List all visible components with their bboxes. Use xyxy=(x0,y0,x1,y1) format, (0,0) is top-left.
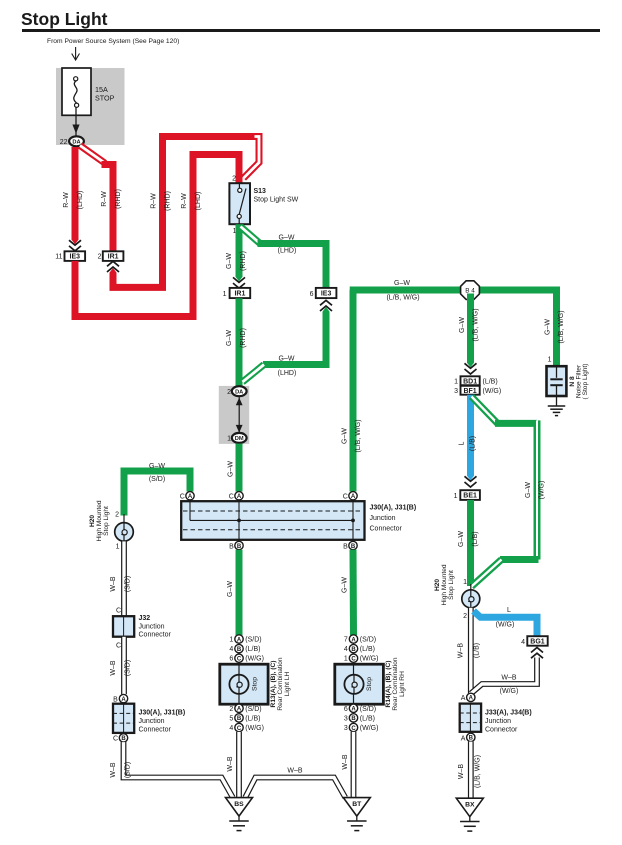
svg-text:A: A xyxy=(188,494,193,500)
junction connector J30(A), J31(B) (left) xyxy=(113,704,134,733)
wire R-W (RHD) outlined corner into S13 pin 2 xyxy=(244,137,260,179)
wire G-W (RHD) from S13 pin 1 xyxy=(236,224,243,274)
svg-text:G–W: G–W xyxy=(342,577,349,593)
svg-text:J30(A), J31(B): J30(A), J31(B) xyxy=(139,710,186,717)
svg-text:A: A xyxy=(237,707,242,713)
lamp symbol R13 stop xyxy=(229,675,248,694)
connector BG1 xyxy=(527,636,547,646)
connector arrow below IR1 xyxy=(110,268,117,276)
ground bars BT xyxy=(347,820,367,822)
wire G-W (W/G) bypass diagonal from BF1 xyxy=(472,397,498,424)
connector BE1 xyxy=(460,490,480,500)
wire G-W (L/B,W/G) from B4 down to BD1/BF1 xyxy=(467,294,474,361)
svg-text:Junction: Junction xyxy=(485,718,511,725)
svg-text:C: C xyxy=(343,494,348,501)
pin A of R13 bottom xyxy=(235,704,243,712)
svg-text:(W/G): (W/G) xyxy=(496,622,515,629)
svg-text:Rear Combination: Rear Combination xyxy=(392,657,399,710)
svg-text:W–B: W–B xyxy=(458,643,465,659)
ground of N8 xyxy=(556,396,558,406)
svg-text:(S/D): (S/D) xyxy=(125,576,132,592)
pin A of R13 top xyxy=(235,635,243,643)
wire W-B link BS to BT xyxy=(245,778,345,798)
svg-text:(L/B): (L/B) xyxy=(245,646,260,653)
svg-text:Connector: Connector xyxy=(139,632,172,639)
svg-text:1: 1 xyxy=(223,291,227,298)
svg-text:IR1: IR1 xyxy=(108,254,119,261)
svg-text:(W/G): (W/G) xyxy=(245,656,264,663)
pin B (bottom mid) xyxy=(235,541,243,549)
svg-text:2: 2 xyxy=(232,176,236,183)
svg-text:G–W: G–W xyxy=(226,253,233,269)
svg-text:2: 2 xyxy=(227,389,231,396)
connector B4 (octagon) xyxy=(461,281,480,300)
connector IR1 (red) xyxy=(103,251,124,261)
wire W-B from H20 pin 2 xyxy=(468,608,474,693)
junction connector J30(A), J31(B) (main) xyxy=(181,501,364,540)
svg-text:W–B: W–B xyxy=(110,762,117,778)
pin chain line R13 bottom xyxy=(238,704,240,732)
wire G-W (S/D) branch to left H20 xyxy=(124,471,190,516)
connector DM (mid) xyxy=(232,433,247,443)
wire G-W (LHD) diagonal from S13 pin 1 xyxy=(241,227,261,244)
pin C of R13 bottom xyxy=(235,723,243,731)
svg-text:(RHD): (RHD) xyxy=(240,328,247,348)
ground point BX xyxy=(456,798,483,817)
connector arrow into BE1 xyxy=(467,472,474,480)
svg-text:B: B xyxy=(113,696,118,703)
svg-text:B: B xyxy=(237,647,242,653)
connector IE3 (green) xyxy=(316,288,337,298)
wire R-W (LHD) loop from IE3 to S13 pin 2 xyxy=(75,155,239,317)
pin chain line R13 top xyxy=(238,635,240,664)
svg-text:A: A xyxy=(237,494,242,500)
wire L (L/B) from BF1 to BE1 xyxy=(467,395,474,474)
lamp R14 Rear Combination Light RH xyxy=(335,664,384,704)
fuse 15A STOP xyxy=(62,68,91,115)
pin C of R13 top xyxy=(235,654,243,662)
pin A of R14 top xyxy=(349,635,357,643)
lamp H20 High Mounted Stop Light (S/D) xyxy=(123,514,125,523)
pin B of J30/J31 left xyxy=(119,734,127,742)
pin B of R14 bottom xyxy=(349,714,357,722)
svg-text:B: B xyxy=(351,647,356,653)
svg-text:(L/B): (L/B) xyxy=(474,643,481,658)
lamp H20 High Mounted Stop Light (right) xyxy=(470,584,472,591)
wire G-W (W/G) bypass vertical xyxy=(534,420,541,559)
svg-text:BG1: BG1 xyxy=(530,639,545,646)
svg-text:(W/G): (W/G) xyxy=(245,725,264,732)
pin B of J33/J34 xyxy=(467,733,475,741)
svg-text:Stop Light SW: Stop Light SW xyxy=(254,197,299,204)
svg-text:3: 3 xyxy=(454,388,458,395)
svg-text:(L/B, W/G): (L/B, W/G) xyxy=(355,419,362,452)
connector DA (fuse block) xyxy=(69,136,84,146)
svg-text:Junction: Junction xyxy=(370,515,396,522)
svg-text:G–W: G–W xyxy=(226,330,233,346)
svg-text:6: 6 xyxy=(229,656,233,663)
svg-text:1: 1 xyxy=(229,637,233,644)
pin B of R13 top xyxy=(235,644,243,652)
svg-text:1: 1 xyxy=(548,357,552,364)
pin B (bottom right) xyxy=(349,541,357,549)
svg-text:(RHD): (RHD) xyxy=(165,191,172,211)
svg-text:2: 2 xyxy=(463,613,467,620)
svg-text:G–W: G–W xyxy=(149,463,165,470)
svg-text:High Mounted: High Mounted xyxy=(96,500,103,541)
wire W-B (S/D) to BS xyxy=(124,742,233,797)
wire G-W (W/G) bypass horizontal xyxy=(495,420,537,427)
svg-text:(W/G): (W/G) xyxy=(500,688,519,695)
svg-text:BE1: BE1 xyxy=(463,493,477,500)
pin C of R14 bottom xyxy=(349,723,357,731)
svg-text:7: 7 xyxy=(344,637,348,644)
svg-text:IR1: IR1 xyxy=(234,291,245,298)
connector IR1 (green) xyxy=(230,288,251,298)
svg-text:C: C xyxy=(116,643,121,650)
svg-text:(L/B, W/G): (L/B, W/G) xyxy=(558,310,565,343)
svg-text:Connector: Connector xyxy=(370,525,403,532)
wire fuse to connector DA xyxy=(75,107,77,135)
svg-text:W–B: W–B xyxy=(287,768,303,775)
svg-text:(S/D): (S/D) xyxy=(360,637,376,644)
pin B of R13 bottom xyxy=(235,714,243,722)
svg-text:(S/D): (S/D) xyxy=(360,706,376,713)
wire R-W (RHD) diagonal from DA xyxy=(80,146,105,164)
svg-text:B: B xyxy=(237,544,242,550)
junction node dots xyxy=(237,519,241,523)
lamp symbol H20 right xyxy=(462,590,480,608)
svg-text:1: 1 xyxy=(116,544,120,551)
svg-text:(L/B): (L/B) xyxy=(245,715,260,722)
svg-text:BF1: BF1 xyxy=(463,388,476,395)
svg-text:J33(A), J34(B): J33(A), J34(B) xyxy=(485,709,532,716)
svg-text:BX: BX xyxy=(465,802,475,809)
svg-text:(S/D): (S/D) xyxy=(245,706,261,713)
svg-text:3: 3 xyxy=(344,725,348,732)
wire G-W (W/G) bypass horizontal lower xyxy=(500,556,539,563)
wire W-B (W/G) from BG1 xyxy=(471,658,537,694)
wire W-B to BX xyxy=(468,742,474,798)
connector arrow into BD1 xyxy=(467,359,474,367)
title rule xyxy=(22,29,600,32)
svg-text:Stop: Stop xyxy=(366,677,373,691)
svg-text:A: A xyxy=(237,637,242,643)
svg-text:A: A xyxy=(351,707,356,713)
svg-text:C: C xyxy=(351,657,356,663)
wire L (W/G) from H20 pin 2 to BG1 xyxy=(474,611,538,636)
wire W-B (S/D) from H20 left xyxy=(121,541,127,616)
svg-text:G–W: G–W xyxy=(458,531,465,547)
svg-text:G–W: G–W xyxy=(394,280,410,287)
svg-text:C: C xyxy=(229,494,234,501)
lamp symbol H20 left xyxy=(115,523,134,542)
ground bars N8 xyxy=(548,405,566,407)
svg-text:Connector: Connector xyxy=(485,726,518,733)
ground point BS xyxy=(226,798,253,817)
connector IE3 xyxy=(65,251,86,261)
svg-text:G–W: G–W xyxy=(525,482,532,498)
power source block (gray) xyxy=(56,68,125,145)
junction connector J33(A), J34(B) xyxy=(460,704,481,732)
svg-text:11: 11 xyxy=(55,254,62,261)
svg-text:(RHD): (RHD) xyxy=(240,251,247,271)
connector BF1 xyxy=(461,386,480,395)
svg-text:(LHD): (LHD) xyxy=(77,191,84,210)
lamp R13 Rear Combination Light LH xyxy=(220,664,268,704)
svg-text:2: 2 xyxy=(229,706,233,713)
svg-text:(S/D): (S/D) xyxy=(125,660,132,676)
connector arrow into IR1 (green) xyxy=(236,273,243,281)
svg-text:C: C xyxy=(237,726,242,732)
svg-text:Light RH: Light RH xyxy=(399,671,406,697)
svg-text:(LHD): (LHD) xyxy=(195,192,202,211)
svg-text:H20: H20 xyxy=(89,515,96,527)
svg-text:5: 5 xyxy=(229,715,233,722)
wire G-W down to DA xyxy=(236,298,243,386)
svg-text:R–W: R–W xyxy=(63,192,70,208)
svg-text:Stop Light: Stop Light xyxy=(21,9,108,29)
wire R-W (LHD) from DA down to IE3 xyxy=(72,147,79,238)
svg-text:W–B: W–B xyxy=(342,754,349,770)
svg-text:(S/D): (S/D) xyxy=(125,762,132,778)
svg-text:BS: BS xyxy=(234,801,244,808)
pin chain line R14 bottom xyxy=(353,704,355,732)
svg-text:22: 22 xyxy=(60,139,68,146)
junction connector J32 xyxy=(113,616,134,637)
svg-text:(LHD): (LHD) xyxy=(278,248,297,255)
wire W-B (S/D) xyxy=(121,637,127,695)
svg-text:Junction: Junction xyxy=(139,623,165,630)
link arrows between DA and DM xyxy=(238,397,240,433)
svg-text:A: A xyxy=(121,697,126,703)
connector arrow into IE3 xyxy=(72,236,79,244)
svg-text:S13: S13 xyxy=(254,188,267,195)
svg-text:4: 4 xyxy=(344,646,348,653)
svg-text:W–B: W–B xyxy=(501,674,517,681)
svg-text:6: 6 xyxy=(310,291,314,298)
svg-text:(W/G): (W/G) xyxy=(483,388,502,395)
wire G-W from DM to junction connector xyxy=(236,444,243,492)
wire W-B from R14 to BT xyxy=(351,732,357,798)
pin chain line R14 top xyxy=(353,635,355,664)
svg-text:H20: H20 xyxy=(434,579,441,591)
svg-text:1: 1 xyxy=(463,579,467,586)
svg-text:G–W: G–W xyxy=(279,235,295,242)
svg-text:J32: J32 xyxy=(139,615,151,622)
svg-text:R14(A), (B), (C): R14(A), (B), (C) xyxy=(385,661,392,708)
svg-text:BD1: BD1 xyxy=(463,378,477,385)
svg-text:Stop Light: Stop Light xyxy=(103,506,110,536)
svg-text:W–B: W–B xyxy=(110,660,117,676)
svg-text:(W/G): (W/G) xyxy=(539,481,546,500)
svg-text:IE3: IE3 xyxy=(70,254,81,261)
connector arrow below BG1 xyxy=(531,648,543,653)
svg-text:A: A xyxy=(461,695,466,702)
svg-text:Light LH: Light LH xyxy=(284,671,291,696)
svg-text:STOP: STOP xyxy=(95,94,115,103)
svg-text:G–W: G–W xyxy=(227,581,234,597)
wire R-W (RHD) down to IR1 xyxy=(102,165,114,252)
svg-text:R–W: R–W xyxy=(101,191,108,207)
svg-text:B: B xyxy=(237,716,242,722)
svg-text:W–B: W–B xyxy=(110,576,117,592)
svg-text:(S/D): (S/D) xyxy=(245,637,261,644)
svg-text:(L/B): (L/B) xyxy=(470,436,477,451)
svg-text:4: 4 xyxy=(521,639,525,646)
svg-text:(LHD): (LHD) xyxy=(278,370,297,377)
pin B of R14 top xyxy=(349,644,357,652)
svg-text:4: 4 xyxy=(229,725,233,732)
svg-text:G–W: G–W xyxy=(228,461,235,477)
svg-text:Stop: Stop xyxy=(252,677,259,691)
svg-text:Rear Combination: Rear Combination xyxy=(277,657,284,710)
ground bars BX xyxy=(460,821,480,823)
svg-text:1: 1 xyxy=(454,493,458,500)
switch S13 Stop Light SW xyxy=(229,183,250,224)
svg-text:A: A xyxy=(469,696,474,702)
svg-text:B: B xyxy=(121,736,126,742)
power feed arrow from power source xyxy=(75,47,77,60)
svg-text:DA: DA xyxy=(235,389,243,395)
pin A (top mid) xyxy=(235,492,243,500)
svg-text:(W/G): (W/G) xyxy=(360,725,379,732)
svg-text:(L/B): (L/B) xyxy=(360,646,375,653)
connector arrow below IE3 (green) xyxy=(323,307,330,315)
svg-text:(L/B, W/G): (L/B, W/G) xyxy=(386,295,419,302)
connector DA (mid) xyxy=(232,386,247,396)
svg-text:A: A xyxy=(351,637,356,643)
svg-text:G–W: G–W xyxy=(545,319,552,335)
svg-text:B: B xyxy=(469,736,474,742)
svg-text:(RHD): (RHD) xyxy=(115,189,122,209)
svg-text:W–B: W–B xyxy=(227,756,234,772)
svg-text:B: B xyxy=(351,716,356,722)
svg-text:A: A xyxy=(461,735,466,742)
wire W-B from R13 to BS xyxy=(236,732,242,798)
svg-text:Stop Light: Stop Light xyxy=(448,570,455,600)
svg-text:4: 4 xyxy=(229,646,233,653)
svg-text:(L/B): (L/B) xyxy=(483,379,498,386)
svg-text:R–W: R–W xyxy=(181,193,188,209)
svg-text:IE3: IE3 xyxy=(321,291,332,298)
connector BD1 xyxy=(461,376,480,385)
wire G-W (L/B,W/G) riser to B4 net xyxy=(350,290,357,492)
wire G-W (L/B,W/G) B4 net to noise filter xyxy=(350,290,557,366)
lamp symbol R14 stop xyxy=(344,675,363,694)
svg-text:(S/D): (S/D) xyxy=(149,476,165,483)
svg-text:High Mounted: High Mounted xyxy=(441,564,448,605)
svg-text:C: C xyxy=(237,657,242,663)
svg-text:L: L xyxy=(459,441,466,445)
svg-text:Junction: Junction xyxy=(139,718,165,725)
wire G-W to R14 xyxy=(350,550,358,636)
svg-text:DA: DA xyxy=(72,140,80,146)
pin A of J30/J31 left xyxy=(119,694,127,702)
svg-text:1: 1 xyxy=(227,436,231,443)
svg-text:B: B xyxy=(351,544,356,550)
instrument panel / body connector block (gray) xyxy=(219,386,249,444)
wire G-W (LHD) diagonal merge above DA xyxy=(243,365,265,383)
svg-text:B: B xyxy=(229,543,234,550)
wire G-W (L/B) from BE1 to H20 xyxy=(467,500,474,586)
pin C of R14 top xyxy=(349,654,357,662)
svg-text:2: 2 xyxy=(98,254,102,261)
pin A (top right) xyxy=(349,492,357,500)
pin A (top left) xyxy=(186,492,194,500)
svg-text:2: 2 xyxy=(115,512,119,519)
ground bars BS xyxy=(229,820,249,822)
svg-text:R13(A), (B), (C): R13(A), (B), (C) xyxy=(270,661,277,708)
svg-text:G–W: G–W xyxy=(279,356,295,363)
svg-text:R–W: R–W xyxy=(151,193,158,209)
wire G-W (LHD) down and left xyxy=(263,314,326,365)
svg-text:6: 6 xyxy=(344,706,348,713)
svg-text:Connector: Connector xyxy=(139,727,172,734)
svg-text:C: C xyxy=(180,494,185,501)
wire G-W (LHD) right and down to IE3 xyxy=(258,244,327,289)
svg-text:C: C xyxy=(113,736,118,743)
svg-text:BT: BT xyxy=(352,801,362,808)
svg-text:(L/B, W/G): (L/B, W/G) xyxy=(475,755,482,788)
svg-text:(L/B, W/G): (L/B, W/G) xyxy=(473,308,480,341)
wire R-W (RHD) loop up and right xyxy=(113,137,255,288)
pin A of R14 bottom xyxy=(349,704,357,712)
svg-text:1: 1 xyxy=(344,656,348,663)
svg-text:3: 3 xyxy=(344,715,348,722)
svg-text:(W/G): (W/G) xyxy=(360,656,379,663)
pin A of J33/J34 xyxy=(467,693,475,701)
svg-text:DM: DM xyxy=(235,436,244,442)
svg-text:(L/B): (L/B) xyxy=(360,715,375,722)
svg-text:W–B: W–B xyxy=(458,764,465,780)
noise filter N8 xyxy=(547,366,567,396)
svg-text:(L/B): (L/B) xyxy=(472,531,479,546)
wire G-W to R13 xyxy=(236,550,243,636)
svg-text:G–W: G–W xyxy=(459,317,466,333)
svg-text:From Power Source System (See: From Power Source System (See Page 120) xyxy=(47,38,179,45)
svg-text:C: C xyxy=(116,608,121,615)
svg-text:G–W: G–W xyxy=(342,428,349,444)
svg-text:B: B xyxy=(343,543,348,550)
svg-text:A: A xyxy=(351,494,356,500)
svg-text:L: L xyxy=(507,607,511,614)
svg-text:C: C xyxy=(351,726,356,732)
wire G-W (W/G) bypass diagonal to H20 xyxy=(472,560,502,587)
svg-text:( Stop Light): ( Stop Light) xyxy=(582,364,589,400)
ground point BT xyxy=(343,798,370,817)
svg-text:1: 1 xyxy=(454,379,458,386)
svg-text:J30(A), J31(B): J30(A), J31(B) xyxy=(370,505,417,512)
